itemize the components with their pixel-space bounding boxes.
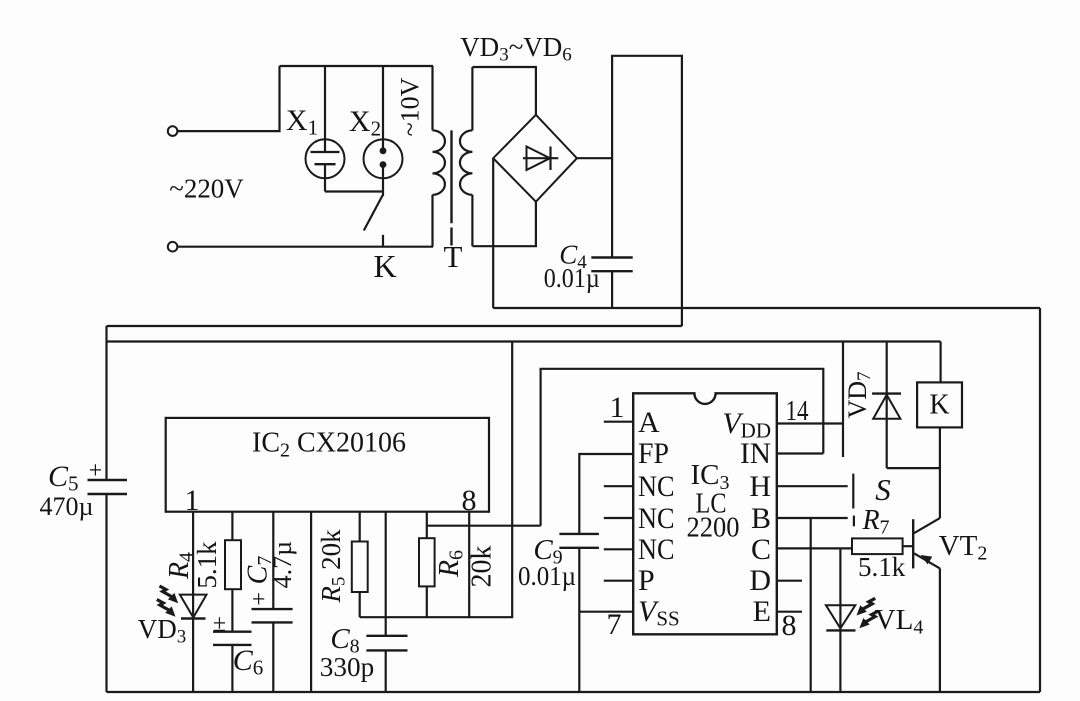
wire rail2 to K	[939, 342, 941, 383]
LED VL4	[826, 548, 856, 692]
VD3 light arrows	[157, 586, 178, 617]
svg-text:NC: NC	[638, 470, 675, 503]
wire terminal1 to X-branch	[177, 66, 280, 131]
svg-text:8: 8	[782, 609, 797, 642]
svg-text:H: H	[749, 470, 771, 503]
pin C wire	[777, 547, 852, 549]
svg-text:P: P	[638, 564, 655, 597]
wire IC2 pin8	[468, 512, 470, 618]
socket X1	[306, 66, 345, 192]
transistor VT2	[913, 468, 940, 692]
svg-text:0.01µ: 0.01µ	[544, 263, 600, 293]
socket X2	[364, 66, 403, 196]
pin E stub	[777, 611, 802, 613]
pin NC2 stub	[604, 517, 633, 519]
svg-text:C: C	[751, 533, 771, 566]
capacitor C4	[591, 258, 632, 309]
svg-text:R7: R7	[861, 505, 889, 539]
svg-text:1: 1	[610, 391, 625, 424]
wire left vertical lower	[105, 494, 107, 692]
svg-text:FP: FP	[638, 437, 669, 470]
svg-text:VSS: VSS	[638, 595, 680, 631]
svg-text:14: 14	[786, 395, 809, 427]
svg-text:C6: C6	[233, 644, 264, 680]
bridge rectifier VD3-VD6 diamond	[493, 115, 577, 202]
svg-text:~220V: ~220V	[169, 174, 244, 204]
wire DC+ riser loop	[612, 56, 682, 326]
switch K contact stub	[382, 235, 384, 247]
wire B to ground	[810, 518, 812, 692]
wire X1 bottom to X2	[325, 190, 383, 192]
wire IN routing	[541, 369, 824, 526]
pin NC3 stub	[604, 548, 633, 550]
wire K to node	[939, 427, 941, 468]
wire IC2 gnd pin	[310, 512, 312, 692]
wire rail2 drop x512	[511, 342, 513, 618]
wire node R5-C8-R6-pin8	[360, 616, 514, 618]
pin D stub	[777, 580, 802, 582]
wire IC2 pin1	[192, 512, 194, 619]
wire VDD riser	[842, 342, 844, 458]
svg-text:20k: 20k	[467, 546, 498, 588]
LED VD3	[180, 595, 207, 692]
wire bridge + output	[577, 157, 612, 159]
svg-text:C5: C5	[48, 460, 79, 496]
svg-text:VL4: VL4	[875, 604, 924, 639]
svg-text:E: E	[753, 595, 771, 628]
wire rail1 V+	[107, 325, 682, 327]
resistor R7	[852, 538, 903, 554]
terminal bottom-left	[168, 242, 178, 252]
wire left vertical upper	[105, 326, 107, 480]
wire R7 to base	[903, 545, 914, 547]
svg-text:VD3~VD6: VD3~VD6	[460, 32, 572, 66]
transformer core	[450, 130, 452, 223]
svg-text:2200: 2200	[687, 512, 740, 544]
resistor R4	[225, 512, 241, 632]
svg-text:7: 7	[607, 608, 622, 641]
VL4 light arrows	[857, 598, 879, 628]
pin VDD wire	[777, 422, 843, 424]
diode VD7	[872, 342, 901, 469]
svg-text:~10V: ~10V	[396, 77, 425, 136]
wire bridge - output down	[492, 158, 494, 308]
pin B wire	[777, 517, 848, 519]
capacitor C6	[213, 632, 252, 692]
svg-text:B: B	[751, 502, 771, 535]
IC3 LC2200 box with notch	[633, 393, 777, 634]
wire IC2 pin6 to C8	[385, 512, 387, 636]
transformer T primary winding	[433, 66, 445, 247]
transformer T secondary winding	[460, 67, 472, 246]
svg-text:A: A	[638, 406, 660, 439]
pin A stub	[604, 421, 633, 423]
resistor R5	[352, 512, 368, 618]
pin NC1 stub	[604, 485, 633, 487]
capacitor C9	[559, 534, 599, 692]
svg-text:R6: R6	[434, 550, 468, 578]
wire secondary top to bridge	[472, 67, 536, 115]
svg-text:K: K	[373, 248, 396, 284]
svg-text:5.1k: 5.1k	[858, 552, 906, 582]
wire VD7 to K bottom	[887, 467, 940, 469]
svg-text:NC: NC	[638, 502, 675, 535]
pin P stub	[604, 580, 633, 582]
wire secondary bottom to bridge	[472, 202, 536, 247]
svg-text:NC: NC	[638, 533, 675, 566]
svg-text:X1: X1	[286, 104, 318, 140]
wire right border	[1039, 308, 1041, 692]
svg-text:X2: X2	[349, 105, 381, 141]
terminal top-left	[168, 126, 178, 136]
svg-text:330p: 330p	[320, 652, 374, 682]
wire bottom rail primary	[177, 246, 433, 248]
switch K blade	[364, 196, 383, 231]
svg-text:+: +	[89, 458, 103, 484]
resistor R6	[419, 512, 435, 618]
relay K box	[917, 382, 962, 427]
capacitor C8	[366, 636, 407, 692]
op-amp IC2 CX20106 box	[166, 418, 489, 512]
svg-text:+: +	[252, 587, 266, 613]
wire top rail primary	[280, 65, 434, 67]
svg-text:VD3: VD3	[138, 614, 187, 648]
bridge diode symbol	[523, 147, 558, 171]
svg-text:S: S	[875, 472, 891, 507]
svg-text:IC2 CX20106: IC2 CX20106	[252, 428, 406, 462]
svg-text:D: D	[749, 564, 771, 597]
wire output node horizontal	[427, 525, 541, 527]
svg-text:VD7: VD7	[843, 371, 875, 418]
wire ground rail y308	[493, 307, 1040, 309]
svg-text:5.1k: 5.1k	[192, 541, 222, 589]
svg-text:±: ±	[213, 611, 226, 637]
svg-text:IN: IN	[740, 437, 771, 470]
switch S bars	[852, 474, 854, 509]
svg-text:R5 20k: R5 20k	[316, 529, 350, 604]
svg-text:0.01µ: 0.01µ	[518, 561, 576, 591]
capacitor C5	[88, 480, 128, 494]
svg-text:4.7µ: 4.7µ	[268, 541, 297, 589]
svg-text:470µ: 470µ	[40, 492, 94, 521]
svg-text:VT2: VT2	[939, 530, 988, 565]
pin H wire	[777, 485, 848, 487]
pin VSS wire	[579, 611, 633, 613]
wire bottom ground rail	[107, 691, 1041, 693]
svg-text:K: K	[929, 390, 949, 421]
wire rail2 V+	[107, 340, 941, 342]
svg-text:T: T	[444, 239, 463, 274]
pin IN wire	[777, 452, 824, 454]
pin FP wire to C9	[579, 454, 633, 534]
capacitor C7	[252, 609, 293, 692]
wire IC2 pin3 branch	[272, 512, 274, 609]
